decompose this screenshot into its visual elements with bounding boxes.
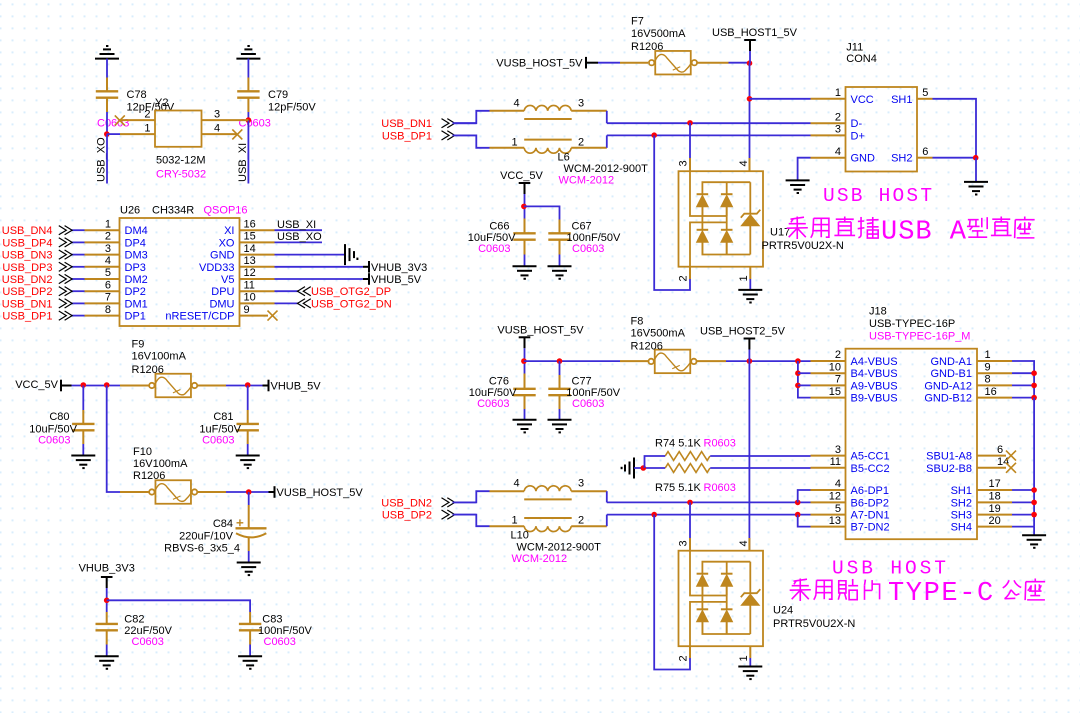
node junction F10 branch [104, 382, 110, 388]
svg-text:USB_DP4: USB_DP4 [2, 237, 52, 249]
capacitor C80 [72, 424, 94, 430]
wire R74 to J18 CC1 [710, 455, 810, 457]
svg-text:WCM-2012-900T: WCM-2012-900T [517, 541, 602, 553]
svg-text:SH3: SH3 [951, 510, 972, 522]
svg-text:F10: F10 [133, 446, 152, 458]
svg-text:V5: V5 [221, 274, 234, 286]
J18 pin 17 wire [977, 489, 1012, 491]
wire U24 pin1 to ground [749, 646, 751, 658]
U26 pin 7 wire [85, 302, 120, 304]
wire VHUB_3V3 horizontal to C83 [107, 600, 250, 612]
svg-text:U24: U24 [773, 605, 793, 617]
U17 internal rail pin3 [690, 171, 727, 216]
U24 diode D2 (upper right) [721, 573, 733, 575]
svg-text:C77: C77 [572, 375, 592, 387]
wire 5V rail down to U24 pin 4 [748, 361, 750, 551]
ground below C77 [548, 420, 572, 433]
svg-text:USB_XI: USB_XI [277, 219, 316, 231]
wire J11 shield to ground [975, 158, 977, 182]
ground below C81 [236, 456, 260, 469]
svg-text:1: 1 [144, 122, 150, 134]
chevrons USB_OTG2_DP [298, 287, 311, 296]
annotation Chinese: uses upright USB A receptacle [791, 217, 805, 219]
svg-text:B4-VBUS: B4-VBUS [851, 368, 898, 380]
svg-text:R1206: R1206 [132, 364, 164, 376]
wire VUSB_HOST_5V to F7 [586, 62, 598, 64]
wire U24 pin4 stub [748, 538, 750, 551]
svg-text:U26: U26 [120, 205, 140, 217]
svg-text:DP1: DP1 [125, 311, 146, 323]
U24 top bus [702, 562, 750, 574]
wire C81 bottom lead [247, 430, 249, 444]
capacitor C76 [513, 389, 535, 395]
svg-text:4: 4 [738, 160, 750, 166]
Y2 pin 3 wire [202, 119, 249, 121]
svg-text:C66: C66 [489, 220, 509, 232]
U26 pin 4 wire [85, 266, 120, 268]
svg-text:11: 11 [830, 456, 841, 468]
svg-text:A9-VBUS: A9-VBUS [851, 380, 898, 392]
svg-text:5: 5 [105, 267, 111, 279]
J11 pin 1 wire [750, 98, 811, 100]
svg-text:1: 1 [835, 87, 841, 99]
resistor R74 [665, 452, 710, 461]
node junction J18 VBUS column [795, 358, 801, 364]
wire R74 left jog [645, 456, 666, 468]
svg-text:3: 3 [578, 97, 584, 109]
svg-text:4: 4 [214, 122, 220, 134]
capacitor C78 [96, 91, 118, 97]
svg-text:8: 8 [105, 304, 111, 316]
wire C80 bottom lead [82, 430, 84, 444]
wire U24 pin3 up to DN2 [689, 538, 691, 551]
svg-text:C79: C79 [268, 89, 288, 101]
svg-text:VCC_5V: VCC_5V [500, 170, 543, 182]
wire USB_DP2 entry [455, 514, 476, 516]
svg-text:3: 3 [835, 124, 841, 136]
node junction C77 [557, 358, 563, 364]
svg-text:A7-DN1: A7-DN1 [851, 510, 890, 522]
ground below C83 [238, 656, 262, 669]
svg-text:9: 9 [244, 304, 250, 316]
svg-text:USB_DN4: USB_DN4 [2, 225, 53, 237]
svg-text:16: 16 [985, 386, 997, 398]
U24 box [679, 551, 764, 647]
svg-text:Y2: Y2 [155, 97, 168, 109]
J18 pin 11 wire stub [811, 467, 846, 469]
wire 5V rail down to U17 pin 4 [749, 63, 751, 171]
svg-text:1: 1 [985, 349, 991, 361]
power port VCC_5V (C66) [519, 183, 531, 194]
svg-text:F9: F9 [132, 339, 145, 351]
J18 pin 2 wire stub [811, 360, 846, 362]
svg-text:10: 10 [829, 361, 841, 373]
power port VUSB_HOST_5V (F10 out) [274, 486, 276, 498]
svg-text:J18: J18 [869, 306, 887, 318]
wire USB_DP1 entry [455, 134, 476, 136]
U26 pin 5 wire [85, 278, 120, 280]
wire GND column to SH column [1033, 398, 1035, 527]
ground below U24 [738, 667, 762, 680]
svg-text:USB_OTG2_DP: USB_OTG2_DP [311, 286, 391, 298]
svg-text:B5-CC2: B5-CC2 [851, 463, 890, 475]
wire USB_XI down [247, 120, 249, 183]
svg-text:USB_HOST1_5V: USB_HOST1_5V [712, 27, 798, 39]
svg-text:7: 7 [835, 374, 841, 386]
svg-text:PRTR5V0U2X-N: PRTR5V0U2X-N [762, 240, 844, 252]
U17 top bus [702, 182, 750, 194]
svg-text:C0603: C0603 [572, 243, 604, 255]
svg-text:6: 6 [922, 146, 928, 158]
svg-text:R0603: R0603 [704, 482, 736, 494]
svg-text:SH1: SH1 [951, 485, 972, 497]
wire C67 top lead [559, 220, 561, 234]
J18 pin 10 wire [798, 372, 811, 374]
svg-text:12pF/50V: 12pF/50V [268, 102, 316, 114]
J18 pin 16 wire [977, 397, 1012, 399]
wire USB_HOST1_5V stub [749, 51, 751, 63]
svg-text:WCM-2012: WCM-2012 [512, 553, 568, 565]
svg-text:USB_DP1: USB_DP1 [382, 130, 432, 142]
no-ERC X on Y2 pin 2 [115, 115, 125, 125]
svg-text:5: 5 [922, 87, 928, 99]
svg-text:DM4: DM4 [125, 225, 148, 237]
J18 pin 12 wire stub [811, 501, 846, 503]
wire C83 top lead [249, 612, 251, 624]
wire C76 top lead [524, 374, 526, 390]
svg-text:100nF/50V: 100nF/50V [567, 232, 621, 244]
capacitor C79 [237, 91, 259, 97]
L6 right jog wires [606, 111, 608, 123]
svg-text:C0603: C0603 [477, 398, 509, 410]
svg-text:2: 2 [578, 136, 584, 148]
svg-text:100nF/50V: 100nF/50V [258, 625, 312, 637]
svg-text:C0603: C0603 [264, 636, 296, 648]
ground above C79 [236, 46, 260, 59]
svg-text:L6: L6 [558, 151, 570, 163]
J18 pin 9 wire [977, 372, 1012, 374]
svg-text:SH1: SH1 [891, 94, 912, 106]
svg-text:4: 4 [835, 478, 841, 490]
svg-text:19: 19 [989, 503, 1001, 515]
svg-text:VUSB_HOST_5V: VUSB_HOST_5V [497, 324, 584, 336]
U26 pin 15 wire + net USB_XO [240, 241, 275, 243]
J11 pin 5 wire [917, 98, 933, 100]
svg-text:1: 1 [512, 136, 518, 148]
svg-text:C80: C80 [49, 411, 69, 423]
svg-text:5: 5 [835, 503, 841, 515]
svg-text:R1206: R1206 [133, 470, 165, 482]
svg-text:USB-TYPEC-16P: USB-TYPEC-16P [869, 318, 955, 330]
svg-text:4: 4 [514, 97, 520, 109]
svg-text:VCC_5V: VCC_5V [15, 379, 58, 391]
ground at J11 shield [964, 182, 988, 195]
wire to C67 [524, 206, 560, 219]
node junction DP2/U24 pin2 [651, 512, 657, 518]
svg-text:11: 11 [244, 279, 255, 291]
ground below C76 [513, 420, 537, 433]
svg-text:C83: C83 [262, 614, 282, 626]
svg-text:2: 2 [144, 108, 150, 120]
node junction USB_HOST2_5V [747, 358, 753, 364]
svg-text:DP3: DP3 [125, 262, 146, 274]
svg-text:C81: C81 [213, 411, 233, 423]
node junction GND pin9 [1031, 370, 1037, 376]
node junction C76 [521, 358, 527, 364]
wire C81 top lead [247, 386, 249, 411]
node junction VBUS pin7 [795, 383, 801, 389]
wire VUSB to F8 [524, 360, 620, 362]
U26 pin 8 wire [85, 315, 120, 317]
svg-text:GND: GND [851, 153, 876, 165]
wire C82 top lead [106, 612, 108, 624]
wire D- from L6 to J11 pin 2 [607, 122, 811, 124]
harness chevrons USB_DN4 [59, 226, 72, 235]
svg-text:USB HOST: USB HOST [832, 558, 949, 580]
capacitor C84 plates [236, 527, 267, 529]
svg-text:4: 4 [514, 478, 520, 490]
power port VHUB_5V (F9 out) [268, 380, 270, 392]
U26 pin 10 DMU wire [240, 302, 275, 304]
L6 left jog wires [453, 111, 490, 123]
svg-text:2: 2 [105, 231, 111, 243]
node junction J11 VCC [747, 96, 753, 102]
U26 pin 13 VDD33 wire [240, 266, 275, 268]
svg-text:VHUB_5V: VHUB_5V [371, 274, 422, 286]
U17 zener diode [749, 182, 751, 214]
node junction D-/U17 pin3 [687, 120, 693, 126]
wire C84 bottom lead [248, 538, 250, 552]
wire F9 to VHUB_5V [198, 385, 227, 387]
svg-text:3: 3 [578, 478, 584, 490]
harness chevrons USB_DN1 [59, 299, 72, 308]
L6 winding bottom [490, 147, 525, 149]
svg-text:D+: D+ [851, 130, 865, 142]
svg-text:20: 20 [989, 515, 1001, 527]
L6 winding top [490, 110, 525, 112]
svg-text:USB_DN3: USB_DN3 [2, 250, 53, 262]
svg-text:VHUB_5V: VHUB_5V [271, 381, 322, 393]
U17 internal rail pin2 [690, 222, 727, 266]
wire C79 bottom lead [247, 98, 249, 112]
capacitor C77 [548, 389, 570, 395]
wire USB_HOST2_5V stub [748, 350, 750, 362]
node junction VBUS pin10 [795, 370, 801, 376]
ground below C82 [95, 656, 119, 669]
svg-text:4: 4 [105, 255, 111, 267]
svg-text:SH2: SH2 [891, 153, 912, 165]
L10 core lines [524, 498, 572, 500]
svg-text:GND-B1: GND-B1 [930, 368, 972, 380]
svg-text:USB_DN2: USB_DN2 [2, 274, 53, 286]
J18 pin 19 wire [977, 514, 1012, 516]
U24 diode D4 (lower right) [721, 608, 733, 610]
svg-text:GND-A12: GND-A12 [924, 380, 972, 392]
svg-text:DPU: DPU [211, 286, 234, 298]
chevrons USB_DP2 [442, 510, 455, 519]
ground above C78 [95, 46, 119, 59]
ground below C80 [71, 456, 95, 469]
node junction R74/R75 [641, 465, 647, 471]
J18 pin 14 wire stub [977, 467, 1006, 469]
svg-text:QSOP16: QSOP16 [204, 205, 248, 217]
svg-text:16V100mA: 16V100mA [132, 351, 187, 363]
svg-text:GND-A1: GND-A1 [930, 356, 972, 368]
J18 pin 6 wire stub [977, 455, 1006, 457]
svg-text:USB_DP2: USB_DP2 [382, 510, 432, 522]
svg-text:9: 9 [985, 361, 991, 373]
U26 pin 14 GND wire [240, 254, 275, 256]
node junction F7/USB_HOST1_5V [747, 60, 753, 66]
U26 pin 11 DPU wire [240, 290, 275, 292]
svg-text:DMU: DMU [209, 298, 234, 310]
svg-text:DP2: DP2 [125, 286, 146, 298]
U26 pin 12 V5 wire [240, 278, 275, 280]
node junction C81 [245, 382, 251, 388]
svg-text:DM1: DM1 [125, 298, 148, 310]
L10 winding bottom [490, 525, 525, 527]
svg-text:C0603: C0603 [38, 435, 70, 447]
ground at J11 GND [786, 180, 810, 193]
wire USB_DN1 entry [455, 122, 476, 124]
svg-text:RBVS-6_3x5_4: RBVS-6_3x5_4 [164, 543, 240, 555]
svg-text:C76: C76 [489, 375, 509, 387]
wire VCC_5V down [524, 194, 526, 219]
connector J18 box [846, 349, 978, 540]
svg-text:L10: L10 [511, 530, 529, 542]
wire C77 bottom lead [559, 395, 561, 409]
U26 pin 1 wire [85, 229, 120, 231]
no-connect X on SBU2 [1006, 463, 1016, 473]
svg-text:VDD33: VDD33 [199, 262, 234, 274]
svg-text:VHUB_3V3: VHUB_3V3 [79, 563, 135, 575]
svg-text:4: 4 [835, 146, 841, 158]
J18 pin 8 wire [977, 384, 1012, 386]
svg-text:TYPE-C: TYPE-C [888, 579, 995, 609]
wire C79 ground to cap [247, 59, 249, 78]
svg-text:10: 10 [244, 292, 256, 304]
node junction SH pin19 [1031, 512, 1037, 518]
svg-text:3: 3 [678, 160, 690, 166]
svg-text:100nF/50V: 100nF/50V [566, 387, 620, 399]
svg-text:A5-CC1: A5-CC1 [851, 451, 890, 463]
wire ground to R75 [634, 467, 665, 469]
node junction GND pin16 [1031, 395, 1037, 401]
svg-text:3: 3 [835, 444, 841, 456]
U17 bottom bus [702, 242, 750, 254]
svg-text:USB_XI: USB_XI [237, 143, 249, 182]
J18 pin 20 wire [977, 526, 1012, 528]
wire C83 bottom lead [249, 630, 251, 644]
svg-text:22uF/50V: 22uF/50V [124, 625, 172, 637]
J18 pin 13 jog wire [811, 526, 846, 528]
U24 diode D3 (lower left) [697, 608, 709, 610]
svg-text:C0603: C0603 [202, 435, 234, 447]
svg-text:3: 3 [105, 243, 111, 255]
J18 pin 5 wire stub [811, 514, 846, 516]
U17 diode D4 (lower right) [721, 229, 733, 231]
svg-text:R74 5.1K: R74 5.1K [655, 438, 702, 450]
node junction J11 shield [973, 155, 979, 161]
wire C78 ground to cap [106, 59, 108, 78]
svg-text:C0603: C0603 [132, 636, 164, 648]
wire C77 branch down [559, 361, 561, 375]
svg-text:A4-VBUS: A4-VBUS [851, 356, 898, 368]
J11 pin 4 wire [811, 157, 846, 159]
svg-text:1: 1 [738, 655, 750, 661]
svg-text:XO: XO [219, 237, 235, 249]
svg-text:USB_HOST2_5V: USB_HOST2_5V [700, 325, 786, 337]
Y2 pin 4 wire [202, 133, 238, 135]
svg-text:6: 6 [105, 279, 111, 291]
svg-text:DP4: DP4 [125, 237, 146, 249]
wire F7 output [698, 62, 729, 64]
svg-text:USB_DN2: USB_DN2 [381, 497, 432, 509]
J11 pin 6 wire [917, 157, 933, 159]
capacitor C66 [513, 233, 535, 239]
fuse F7 [649, 51, 697, 74]
U26 pin 2 wire [85, 241, 120, 243]
svg-text:2: 2 [678, 655, 690, 661]
U26 pin 16 wire + net USB_XI [240, 229, 275, 231]
wire SH column to ground [1033, 527, 1035, 536]
svg-text:GND-B12: GND-B12 [924, 393, 972, 405]
wire C67 bottom lead [559, 240, 561, 255]
wire F8 output [697, 360, 726, 362]
ground at U26 GND pin [345, 244, 357, 265]
chevrons USB_DP1 [442, 131, 455, 140]
node junction DP2/J18 pin13 jog [795, 512, 801, 518]
L10 right jog wires [606, 491, 608, 502]
wire VCC_5V to F9 [61, 385, 72, 387]
svg-text:F8: F8 [631, 316, 644, 328]
fuse F9 [149, 374, 197, 398]
wire C82 bottom lead [106, 630, 108, 644]
wire C80 top lead [82, 386, 84, 411]
harness chevrons USB_DP2 [59, 287, 72, 296]
svg-text:WCM-2012: WCM-2012 [559, 175, 615, 187]
svg-text:C78: C78 [127, 89, 147, 101]
crystal Y2 box [155, 111, 202, 147]
svg-text:13: 13 [244, 255, 256, 267]
U24 internal rail pin2 [690, 602, 727, 646]
wire C66 bottom lead [524, 240, 526, 255]
harness chevrons USB_DP1 [59, 311, 72, 320]
wire R75 to J18 CC2 [710, 467, 810, 469]
U24 diode D1 (upper left) [697, 573, 709, 575]
svg-text:10uF/50V: 10uF/50V [469, 387, 517, 399]
U17 box [679, 171, 764, 267]
svg-text:2: 2 [835, 349, 841, 361]
power port VHUB_3V3 (bottom left) [101, 577, 113, 588]
power port VUSB_HOST_5V (above C76) [519, 337, 531, 348]
svg-text:1: 1 [512, 515, 518, 527]
ground left of R74/R75 [622, 458, 634, 479]
svg-text:WCM-2012-900T: WCM-2012-900T [564, 163, 649, 175]
svg-text:2: 2 [678, 275, 690, 281]
power port USB_HOST1_5V [744, 40, 756, 51]
node junction C79/XI [246, 117, 252, 123]
svg-text:F7: F7 [631, 16, 644, 28]
svg-text:VHUB_3V3: VHUB_3V3 [371, 262, 427, 274]
harness chevrons USB_DP3 [59, 262, 72, 271]
svg-text:CRY-5032: CRY-5032 [156, 169, 206, 181]
svg-text:B9-VBUS: B9-VBUS [851, 393, 898, 405]
node junction C82 [104, 598, 110, 604]
svg-text:14: 14 [244, 243, 256, 255]
node junction C66 [521, 204, 527, 210]
no-connect X on Y2 pin 4 [232, 129, 242, 139]
